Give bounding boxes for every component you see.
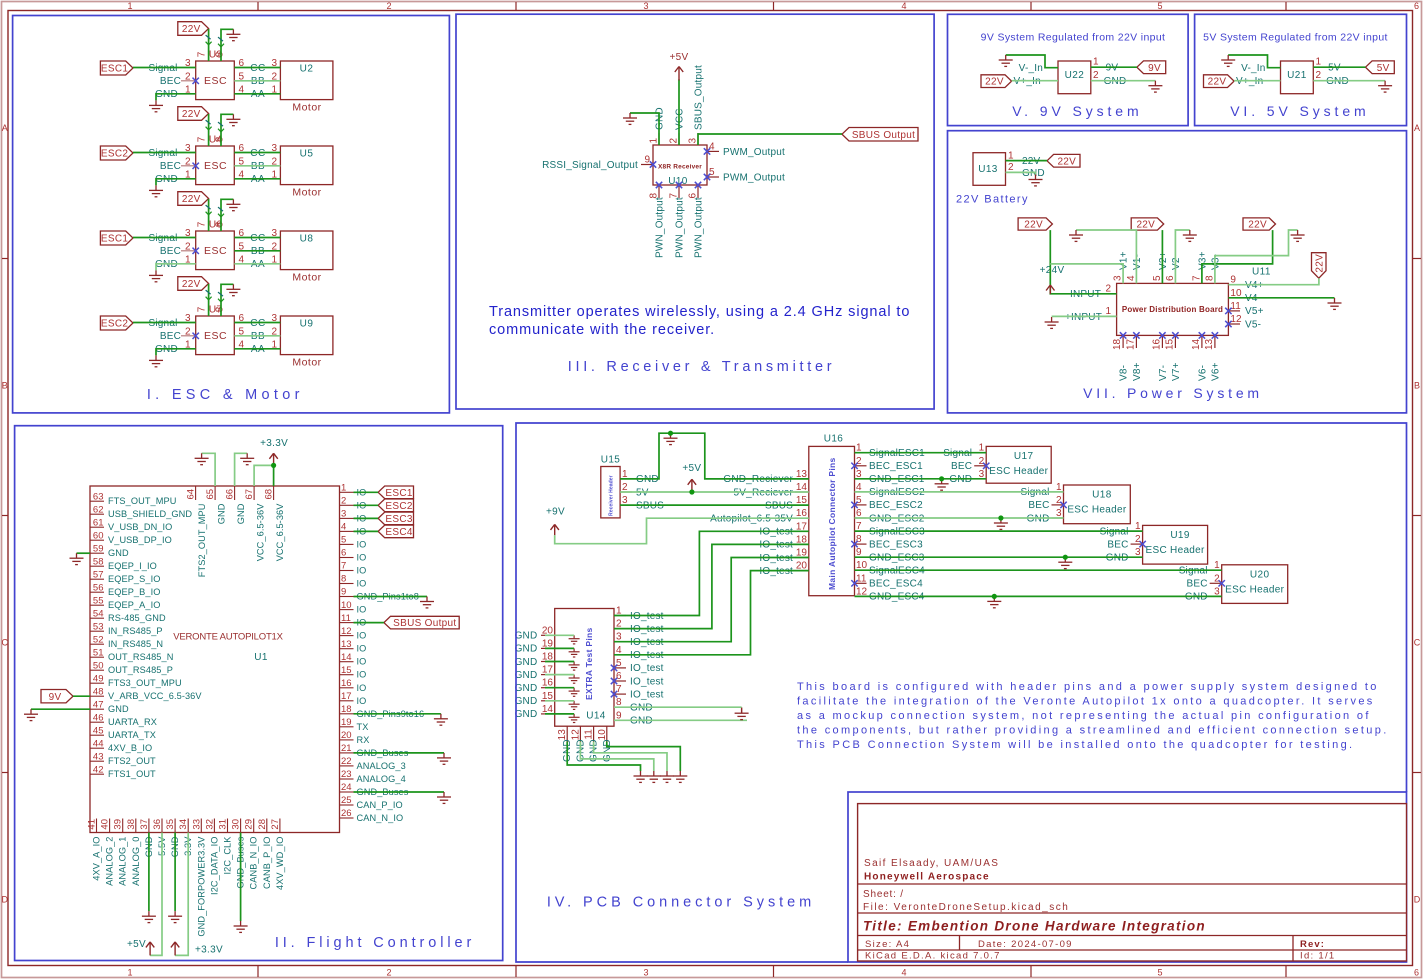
svg-text:7: 7 (197, 306, 208, 312)
svg-text:24: 24 (341, 782, 352, 793)
svg-text:BEC: BEC (160, 161, 181, 172)
svg-text:+5V: +5V (682, 463, 701, 474)
svg-text:53: 53 (93, 621, 104, 632)
svg-text:A: A (2, 123, 8, 133)
svg-text:9V: 9V (1148, 63, 1161, 74)
svg-text:15: 15 (1164, 338, 1175, 350)
svg-text:BEC_ESC4: BEC_ESC4 (869, 579, 923, 590)
svg-text:PWN_Output: PWN_Output (655, 197, 666, 258)
svg-text:3: 3 (341, 509, 346, 520)
svg-text:GND: GND (515, 657, 538, 668)
svg-text:59: 59 (93, 543, 104, 554)
svg-text:U11: U11 (1252, 267, 1271, 278)
svg-text:9V: 9V (1106, 63, 1119, 74)
svg-text:13: 13 (1204, 338, 1215, 350)
svg-text:22: 22 (341, 756, 352, 767)
svg-text:D: D (2, 895, 9, 905)
svg-text:+9V: +9V (546, 507, 565, 518)
svg-text:V7+: V7+ (1171, 362, 1182, 381)
svg-text:22V: 22V (1136, 220, 1155, 231)
svg-text:3: 3 (643, 1, 648, 11)
svg-text:30: 30 (231, 819, 242, 830)
svg-text:61: 61 (93, 517, 104, 528)
svg-text:IO: IO (357, 670, 367, 680)
svg-text:1: 1 (1105, 306, 1111, 317)
svg-text:EQEP_B_IO: EQEP_B_IO (108, 587, 160, 597)
svg-text:CAN_N_IO: CAN_N_IO (357, 813, 404, 823)
svg-text:U22: U22 (1065, 70, 1085, 81)
svg-text:communicate with the receiver.: communicate with the receiver. (489, 322, 715, 338)
svg-text:GND: GND (515, 670, 538, 681)
svg-text:the components, but rather pro: the components, but rather providing a s… (797, 725, 1389, 737)
svg-text:50: 50 (93, 660, 104, 671)
svg-text:2: 2 (1056, 495, 1062, 506)
svg-text:ESC1: ESC1 (385, 488, 412, 499)
svg-text:IO: IO (357, 657, 367, 667)
svg-text:2: 2 (979, 456, 985, 467)
svg-text:BEC_ESC2: BEC_ESC2 (869, 500, 923, 511)
svg-text:4: 4 (901, 968, 906, 978)
svg-text:GND: GND (515, 644, 538, 655)
svg-text:This board is configured with: This board is configured with header pin… (797, 681, 1379, 693)
svg-text:V3+: V3+ (1197, 251, 1208, 270)
svg-text:51: 51 (93, 647, 104, 658)
svg-text:8: 8 (341, 574, 346, 585)
svg-text:21: 21 (341, 743, 352, 754)
svg-text:BEC: BEC (1028, 500, 1049, 511)
svg-text:BEC_ESC1: BEC_ESC1 (869, 461, 923, 472)
svg-text:4XV_B_IO: 4XV_B_IO (108, 743, 152, 753)
svg-text:13: 13 (557, 729, 568, 741)
svg-text:IO: IO (357, 566, 367, 576)
svg-text:5: 5 (1157, 968, 1162, 978)
svg-text:V7-: V7- (1158, 365, 1169, 381)
svg-text:IO_test: IO_test (630, 676, 664, 687)
svg-text:40: 40 (100, 819, 111, 830)
svg-text:57: 57 (93, 569, 104, 580)
svg-text:Power Distribution Board: Power Distribution Board (1122, 305, 1223, 314)
svg-text:+INPUT: +INPUT (1065, 312, 1102, 323)
svg-text:IO_test: IO_test (630, 689, 664, 700)
svg-text:11: 11 (341, 613, 351, 624)
svg-text:Motor: Motor (292, 357, 321, 369)
svg-text:10: 10 (341, 600, 352, 611)
svg-text:BEC: BEC (951, 461, 972, 472)
svg-text:II. Flight Controller: II. Flight Controller (275, 935, 475, 951)
svg-text:45: 45 (93, 725, 104, 736)
svg-text:BEC: BEC (160, 76, 181, 87)
svg-text:49: 49 (93, 673, 104, 684)
svg-text:ESC1: ESC1 (101, 234, 128, 245)
svg-text:U21: U21 (1287, 70, 1307, 81)
svg-text:39: 39 (113, 819, 124, 830)
svg-text:ANALOG_3: ANALOG_3 (357, 761, 406, 771)
svg-text:58: 58 (93, 556, 104, 567)
svg-text:1: 1 (127, 1, 132, 11)
svg-text:D: D (1414, 895, 1421, 905)
svg-text:6: 6 (341, 548, 346, 559)
svg-text:CANB_P_IO: CANB_P_IO (262, 837, 272, 889)
svg-text:28: 28 (257, 819, 268, 830)
svg-text:17: 17 (1125, 338, 1136, 350)
svg-text:7: 7 (197, 51, 208, 57)
svg-text:FTS2_OUT_MPU: FTS2_OUT_MPU (197, 504, 207, 578)
svg-text:IO: IO (357, 605, 367, 615)
svg-text:4XV_WD_IO: 4XV_WD_IO (275, 837, 285, 891)
svg-text:IO: IO (357, 539, 367, 549)
svg-text:RX: RX (357, 735, 370, 745)
svg-text:22V: 22V (1022, 156, 1041, 167)
svg-text:This PCB Connection System wil: This PCB Connection System will be insta… (797, 739, 1354, 751)
svg-text:9V: 9V (49, 692, 62, 703)
svg-text:2: 2 (1093, 70, 1099, 81)
svg-text:12: 12 (570, 729, 581, 741)
svg-text:2: 2 (1135, 534, 1141, 545)
svg-text:EQEP_S_IO: EQEP_S_IO (108, 574, 160, 584)
svg-text:CAN_P_IO: CAN_P_IO (357, 800, 403, 810)
svg-text:IO: IO (357, 579, 367, 589)
svg-text:TX: TX (357, 722, 369, 732)
svg-text:22V: 22V (1024, 220, 1043, 231)
svg-text:Main Autopilot Connector Pins: Main Autopilot Connector Pins (827, 457, 837, 590)
svg-text:27: 27 (270, 819, 281, 830)
svg-text:RS-485_GND: RS-485_GND (108, 613, 166, 623)
svg-text:ESC: ESC (204, 75, 227, 87)
svg-text:5: 5 (616, 658, 622, 669)
svg-text:U20: U20 (1250, 569, 1270, 580)
svg-text:ANALOG_0: ANALOG_0 (131, 837, 141, 886)
svg-text:GND: GND (655, 107, 666, 130)
svg-text:EXTRA Test Pins: EXTRA Test Pins (584, 627, 594, 700)
svg-text:BEC: BEC (160, 331, 181, 342)
svg-text:GND: GND (515, 631, 538, 642)
svg-text:+5V: +5V (127, 939, 146, 950)
svg-text:I2C_DATA_IO: I2C_DATA_IO (209, 837, 219, 895)
svg-text:FTS1_OUT: FTS1_OUT (108, 769, 156, 779)
svg-text:V8+: V8+ (1132, 362, 1143, 381)
svg-text:4: 4 (1126, 275, 1137, 281)
svg-text:2: 2 (386, 1, 391, 11)
svg-text:5V: 5V (1328, 63, 1341, 74)
svg-text:Title: Embention Drone Hardwar: Title: Embention Drone Hardware Integrat… (863, 919, 1206, 934)
svg-text:Motor: Motor (292, 272, 321, 284)
svg-text:38: 38 (126, 819, 137, 830)
svg-text:34: 34 (178, 819, 189, 830)
svg-text:ESC4: ESC4 (385, 527, 412, 538)
svg-text:68: 68 (264, 489, 275, 500)
svg-text:GND: GND (217, 503, 227, 524)
svg-text:I2C_CLK: I2C_CLK (223, 836, 233, 875)
svg-text:23: 23 (341, 769, 352, 780)
svg-text:29: 29 (244, 819, 255, 830)
svg-text:FTS3_OUT_MPU: FTS3_OUT_MPU (108, 678, 182, 688)
svg-text:IV. PCB Connector System: IV. PCB Connector System (547, 895, 815, 911)
svg-text:11: 11 (584, 729, 595, 740)
svg-text:ESC: ESC (204, 245, 227, 257)
svg-text:RSSI_Signal_Output: RSSI_Signal_Output (542, 160, 638, 171)
svg-text:9: 9 (341, 587, 346, 598)
svg-text:+5V: +5V (670, 52, 689, 63)
svg-text:6: 6 (616, 671, 622, 682)
svg-text:ESC2: ESC2 (385, 501, 412, 512)
svg-text:7: 7 (197, 136, 208, 142)
svg-text:VCC_6.5-36V: VCC_6.5-36V (256, 503, 266, 562)
svg-text:46: 46 (93, 712, 104, 723)
svg-text:2: 2 (669, 138, 680, 144)
svg-text:UARTA_RX: UARTA_RX (108, 717, 157, 727)
svg-text:43: 43 (93, 751, 104, 762)
svg-text:U17: U17 (1014, 451, 1034, 462)
svg-text:11: 11 (1230, 301, 1241, 312)
svg-text:55: 55 (93, 595, 104, 606)
svg-text:20: 20 (341, 730, 352, 741)
svg-text:IO: IO (357, 631, 367, 641)
svg-text:ESC: ESC (204, 330, 227, 342)
svg-text:2: 2 (386, 968, 391, 978)
svg-text:GND: GND (515, 709, 538, 720)
svg-text:GND: GND (515, 696, 538, 707)
svg-text:BEC: BEC (1107, 539, 1128, 550)
svg-text:V-_In: V-_In (1019, 63, 1043, 74)
svg-text:2: 2 (856, 456, 862, 467)
svg-text:V6+: V6+ (1210, 362, 1221, 381)
svg-text:ANALOG_4: ANALOG_4 (357, 774, 406, 784)
svg-text:2: 2 (341, 496, 346, 507)
svg-text:3: 3 (1113, 275, 1124, 281)
svg-text:SBUS Output: SBUS Output (852, 130, 915, 141)
svg-text:PWN_Output: PWN_Output (675, 197, 686, 258)
svg-text:V1-: V1- (1132, 254, 1143, 270)
svg-text:35: 35 (165, 819, 176, 830)
svg-text:GND: GND (108, 548, 129, 558)
svg-text:10: 10 (597, 729, 608, 741)
svg-text:VCC: VCC (675, 108, 686, 130)
svg-text:11: 11 (856, 573, 867, 584)
svg-text:OUT_RS485_P: OUT_RS485_P (108, 665, 173, 675)
svg-text:Sheet: /: Sheet: / (863, 889, 904, 900)
svg-text:U1: U1 (254, 652, 268, 663)
svg-text:U16: U16 (824, 434, 844, 445)
svg-text:C: C (1414, 638, 1421, 648)
svg-text:U9: U9 (300, 318, 314, 329)
svg-text:U5: U5 (300, 148, 314, 159)
svg-text:Id: 1/1: Id: 1/1 (1300, 951, 1336, 962)
svg-text:9V System Regulated from 22V i: 9V System Regulated from 22V input (981, 32, 1166, 44)
svg-text:2: 2 (1316, 70, 1322, 81)
svg-text:OUT_RS485_N: OUT_RS485_N (108, 652, 173, 662)
svg-text:22V Battery: 22V Battery (956, 194, 1029, 206)
svg-text:32: 32 (204, 819, 215, 830)
svg-text:GND: GND (1022, 168, 1045, 179)
svg-text:62: 62 (93, 504, 104, 515)
svg-text:8: 8 (856, 534, 862, 545)
svg-text:EQEP_I_IO: EQEP_I_IO (108, 561, 157, 571)
svg-text:48: 48 (93, 686, 104, 697)
svg-text:9: 9 (644, 155, 650, 166)
svg-text:V. 9V System: V. 9V System (1012, 103, 1142, 119)
svg-text:42: 42 (93, 764, 104, 775)
svg-text:12: 12 (1230, 314, 1242, 325)
svg-text:ESC Header: ESC Header (989, 466, 1049, 477)
svg-text:BEC: BEC (160, 246, 181, 257)
svg-text:18: 18 (341, 704, 352, 715)
svg-text:22V: 22V (1057, 156, 1076, 167)
svg-text:22V: 22V (182, 194, 201, 205)
svg-text:25: 25 (341, 795, 352, 806)
svg-text:III. Receiver & Transmitter: III. Receiver & Transmitter (568, 359, 836, 375)
svg-text:VI. 5V System: VI. 5V System (1230, 103, 1369, 119)
svg-text:8: 8 (1204, 275, 1215, 281)
svg-text:66: 66 (225, 489, 236, 500)
svg-text:4: 4 (901, 1, 906, 11)
svg-text:12: 12 (341, 626, 352, 637)
svg-text:C: C (2, 638, 9, 648)
svg-text:22V: 22V (182, 279, 201, 290)
svg-text:64: 64 (186, 489, 197, 500)
svg-text:PWM_Output: PWM_Output (723, 147, 785, 158)
svg-text:22V: 22V (985, 77, 1004, 88)
svg-text:ESC Header: ESC Header (1067, 505, 1127, 516)
svg-text:+24V: +24V (1040, 265, 1065, 276)
svg-text:ESC2: ESC2 (101, 149, 128, 160)
svg-text:4: 4 (709, 141, 715, 152)
svg-text:UARTA_TX: UARTA_TX (108, 730, 156, 740)
svg-text:7: 7 (616, 684, 622, 695)
svg-text:54: 54 (93, 608, 104, 619)
svg-text:facilitate the integration of: facilitate the integration of the Veront… (797, 696, 1375, 708)
svg-text:7: 7 (341, 561, 346, 572)
svg-text:FTS2_OUT: FTS2_OUT (108, 756, 156, 766)
svg-text:IO: IO (357, 644, 367, 654)
svg-text:ANALOG_1: ANALOG_1 (118, 837, 128, 886)
svg-text:16: 16 (341, 678, 352, 689)
svg-text:Receiver Header: Receiver Header (609, 475, 615, 516)
svg-text:37: 37 (139, 819, 150, 830)
svg-text:ESC1: ESC1 (101, 64, 128, 75)
svg-text:Motor: Motor (292, 102, 321, 114)
svg-text:22V: 22V (1208, 77, 1227, 88)
svg-text:2: 2 (1105, 283, 1111, 294)
svg-text:Size: A4: Size: A4 (865, 939, 910, 950)
svg-text:5: 5 (341, 535, 346, 546)
svg-text:ANALOG_2: ANALOG_2 (105, 837, 115, 886)
svg-text:1: 1 (1008, 150, 1014, 161)
svg-text:GND_FORPOWER3.3V: GND_FORPOWER3.3V (196, 836, 206, 937)
svg-text:26: 26 (341, 808, 352, 819)
svg-text:V2+: V2+ (1158, 251, 1169, 270)
svg-text:5: 5 (709, 167, 715, 178)
svg-text:SBUS Output: SBUS Output (393, 618, 456, 629)
svg-text:as a mockup connection system,: as a mockup connection system, not repre… (797, 710, 1371, 722)
svg-text:V6-: V6- (1197, 365, 1208, 381)
svg-text:2: 2 (1214, 573, 1220, 584)
svg-text:V_USB_DN_IO: V_USB_DN_IO (108, 522, 172, 532)
svg-text:16: 16 (1151, 338, 1162, 350)
svg-text:B: B (2, 381, 8, 391)
svg-text:67: 67 (244, 489, 255, 500)
svg-text:22V: 22V (182, 109, 201, 120)
svg-text:BEC: BEC (1187, 579, 1208, 590)
svg-text:VII. Power System: VII. Power System (1083, 385, 1263, 401)
svg-text:31: 31 (218, 819, 229, 830)
svg-text:5V: 5V (1377, 63, 1390, 74)
svg-text:56: 56 (93, 582, 104, 593)
svg-text:V8-: V8- (1119, 365, 1130, 381)
svg-text:1: 1 (649, 138, 660, 144)
svg-text:IO: IO (357, 553, 367, 563)
svg-text:7: 7 (1191, 275, 1202, 281)
svg-text:U8: U8 (300, 233, 314, 244)
svg-text:4: 4 (341, 522, 346, 533)
svg-text:60: 60 (93, 530, 104, 541)
svg-text:VCC_6.5-36V: VCC_6.5-36V (275, 503, 285, 562)
svg-text:1: 1 (1093, 57, 1099, 68)
svg-text:V5+: V5+ (1245, 306, 1264, 317)
svg-text:GND: GND (515, 683, 538, 694)
svg-text:52: 52 (93, 634, 104, 645)
svg-text:5: 5 (1152, 275, 1163, 281)
svg-text:5V System Regulated from 22V i: 5V System Regulated from 22V input (1203, 32, 1388, 44)
svg-text:22V: 22V (182, 24, 201, 35)
svg-text:X8R Receiver: X8R Receiver (658, 164, 702, 171)
svg-text:1: 1 (341, 483, 346, 494)
svg-text:U14: U14 (586, 711, 606, 722)
svg-text:ESC2: ESC2 (101, 319, 128, 330)
svg-text:36: 36 (152, 819, 163, 830)
svg-text:U2: U2 (300, 63, 314, 74)
svg-text:+3.3V: +3.3V (260, 438, 288, 449)
svg-text:CANB_N_IO: CANB_N_IO (249, 837, 259, 890)
svg-text:U15: U15 (601, 455, 621, 466)
svg-text:V_USB_DP_IO: V_USB_DP_IO (108, 535, 172, 545)
svg-text:FTS_OUT_MPU: FTS_OUT_MPU (108, 496, 176, 506)
svg-text:Transmitter operates wirelessl: Transmitter operates wirelessly, using a… (489, 304, 910, 320)
svg-text:44: 44 (93, 738, 104, 749)
svg-text:6: 6 (1165, 275, 1176, 281)
svg-text:63: 63 (93, 491, 104, 502)
svg-text:5: 5 (856, 495, 862, 506)
svg-text:File: VeronteDroneSetup.kicad_: File: VeronteDroneSetup.kicad_sch (863, 902, 1069, 913)
svg-text:GND: GND (108, 704, 129, 714)
svg-text:6: 6 (1414, 968, 1419, 978)
svg-text:INPUT: INPUT (1070, 289, 1101, 300)
svg-text:IN_RS485_P: IN_RS485_P (108, 626, 163, 636)
svg-text:V5-: V5- (1245, 319, 1261, 330)
svg-text:4XV_A_IO: 4XV_A_IO (92, 837, 102, 881)
svg-text:Motor: Motor (292, 187, 321, 199)
svg-text:U18: U18 (1092, 490, 1112, 501)
svg-text:KiCad E.D.A. kicad 7.0.7: KiCad E.D.A. kicad 7.0.7 (865, 951, 1001, 962)
svg-text:+3.3V: +3.3V (195, 945, 223, 956)
svg-text:ESC: ESC (204, 160, 227, 172)
svg-text:47: 47 (93, 699, 104, 710)
svg-text:15: 15 (341, 665, 352, 676)
svg-text:U13: U13 (978, 164, 998, 175)
svg-text:1: 1 (1316, 57, 1322, 68)
svg-text:IO_test: IO_test (630, 663, 664, 674)
svg-text:5: 5 (1157, 1, 1162, 11)
svg-text:USB_SHIELD_GND: USB_SHIELD_GND (108, 509, 192, 519)
svg-text:PWN_Output: PWN_Output (694, 197, 705, 258)
svg-text:14: 14 (341, 652, 352, 663)
svg-text:13: 13 (341, 639, 352, 650)
svg-text:Rev:: Rev: (1300, 939, 1325, 950)
svg-text:Saif Elsaady, UAM/UAS: Saif Elsaady, UAM/UAS (864, 858, 999, 869)
svg-text:1: 1 (127, 968, 132, 978)
svg-text:ESC Header: ESC Header (1146, 545, 1206, 556)
svg-text:7: 7 (197, 221, 208, 227)
svg-text:IO: IO (357, 683, 367, 693)
